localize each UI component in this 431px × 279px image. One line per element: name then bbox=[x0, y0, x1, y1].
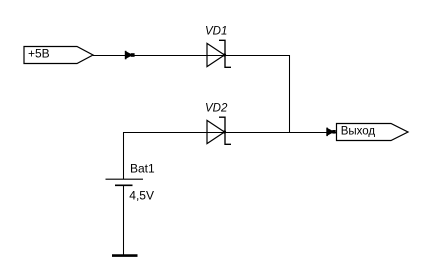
arrow into output port bbox=[326, 128, 335, 137]
net port +5B bbox=[24, 47, 93, 64]
net port Выход bbox=[337, 124, 409, 141]
wire row2 bbox=[123, 132, 337, 134]
wire from row2 corner down to battery bbox=[123, 132, 125, 179]
battery Bat1 bbox=[106, 179, 144, 185]
arrow on wire row1 bbox=[125, 51, 135, 60]
svg-text:VD2: VD2 bbox=[205, 103, 228, 115]
ground bbox=[112, 254, 138, 257]
svg-text:Bat1: Bat1 bbox=[130, 162, 155, 176]
svg-text:+5В: +5В bbox=[28, 47, 50, 61]
svg-text:4,5V: 4,5V bbox=[129, 188, 154, 202]
diode VD2 bbox=[207, 117, 231, 144]
wire vertical from VD1 to output node bbox=[289, 55, 291, 133]
svg-text:Выход: Выход bbox=[341, 126, 376, 138]
wire from battery minus down to ground bbox=[123, 185, 125, 255]
svg-text:VD1: VD1 bbox=[205, 25, 227, 37]
diode VD1 bbox=[207, 40, 231, 67]
wire row1 bbox=[93, 55, 290, 57]
